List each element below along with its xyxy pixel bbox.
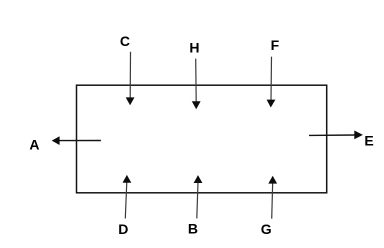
svg-text:E: E [364,132,373,148]
svg-text:B: B [188,221,198,237]
svg-text:D: D [118,221,128,237]
arrow A (outward, left) [52,136,101,145]
svg-text:G: G [261,221,272,237]
arrow C (inward, top) [126,52,135,106]
arrow B (inward, bottom) [194,175,203,218]
svg-text:F: F [271,37,280,53]
arrow D (inward, bottom) [123,175,132,219]
svg-text:C: C [120,33,130,49]
arrow F (inward, top) [267,57,276,108]
svg-text:H: H [189,40,199,56]
svg-text:A: A [29,137,39,153]
arrow G (inward, bottom) [268,176,277,219]
arrow H (inward, top) [192,59,201,110]
arrow E (outward, right) [309,131,363,140]
process box [77,85,327,193]
